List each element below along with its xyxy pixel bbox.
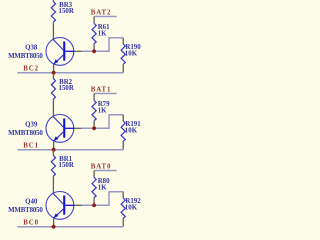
resistor R191 (121, 121, 125, 141)
wire (122, 192, 124, 198)
wire (74, 127, 82, 129)
wire (52, 150, 54, 156)
resistor R79 (92, 100, 96, 120)
wire (74, 50, 82, 52)
svg-text:BAT0: BAT0 (91, 163, 112, 170)
svg-text:Q40: Q40 (25, 198, 38, 205)
junction (92, 126, 96, 130)
wire (122, 115, 124, 121)
wire (52, 22, 54, 40)
junction (52, 148, 56, 152)
wire (122, 38, 124, 44)
resistor R80 (92, 177, 96, 197)
junction (92, 49, 96, 53)
wire (53, 64, 55, 72)
wire (93, 44, 95, 52)
wire (122, 218, 124, 226)
wire (52, 99, 54, 117)
wire (93, 121, 95, 129)
svg-text:10K: 10K (125, 50, 138, 57)
wire (94, 16, 117, 18)
wire (52, 176, 54, 194)
svg-text:10K: 10K (125, 127, 138, 134)
resistor R61 (92, 23, 96, 43)
wire (17, 72, 123, 74)
resistor R190 (121, 44, 125, 64)
wire (94, 170, 117, 172)
svg-text:BC1: BC1 (23, 143, 39, 150)
svg-text:Q38: Q38 (25, 44, 38, 51)
svg-text:BAT2: BAT2 (91, 9, 112, 16)
wire (93, 198, 95, 206)
junction (52, 225, 56, 229)
wire (122, 64, 124, 72)
svg-text:MMBT8050: MMBT8050 (8, 207, 43, 214)
wire (74, 204, 82, 206)
svg-text:MMBT8050: MMBT8050 (8, 130, 43, 137)
svg-text:150R: 150R (59, 85, 75, 92)
transistor Q40 MMBT8050 (46, 192, 74, 220)
svg-text:10K: 10K (125, 204, 138, 211)
wire (17, 149, 123, 151)
svg-text:1K: 1K (98, 31, 107, 38)
transistor Q38 MMBT8050 (46, 38, 74, 66)
resistor BR1 (51, 156, 55, 177)
svg-text:1K: 1K (98, 185, 107, 192)
svg-text:BAT1: BAT1 (91, 86, 112, 93)
svg-text:BC0: BC0 (23, 220, 39, 227)
svg-text:Q39: Q39 (25, 121, 38, 128)
svg-text:BC2: BC2 (23, 66, 39, 73)
resistor R192 (121, 198, 125, 218)
wire (52, 73, 54, 79)
svg-text:MMBT8050: MMBT8050 (8, 53, 43, 60)
wire (53, 218, 55, 226)
junction (52, 71, 56, 75)
resistor BR2 (51, 79, 55, 100)
svg-text:1K: 1K (98, 108, 107, 115)
wire (94, 93, 117, 95)
wire (53, 141, 55, 149)
wire (17, 226, 123, 228)
transistor Q39 MMBT8050 (46, 114, 74, 142)
resistor BR3 (51, 2, 55, 23)
wire (52, 0, 54, 2)
wire (122, 141, 124, 149)
junction (92, 203, 96, 207)
svg-text:150R: 150R (59, 8, 75, 15)
svg-text:150R: 150R (59, 162, 75, 169)
